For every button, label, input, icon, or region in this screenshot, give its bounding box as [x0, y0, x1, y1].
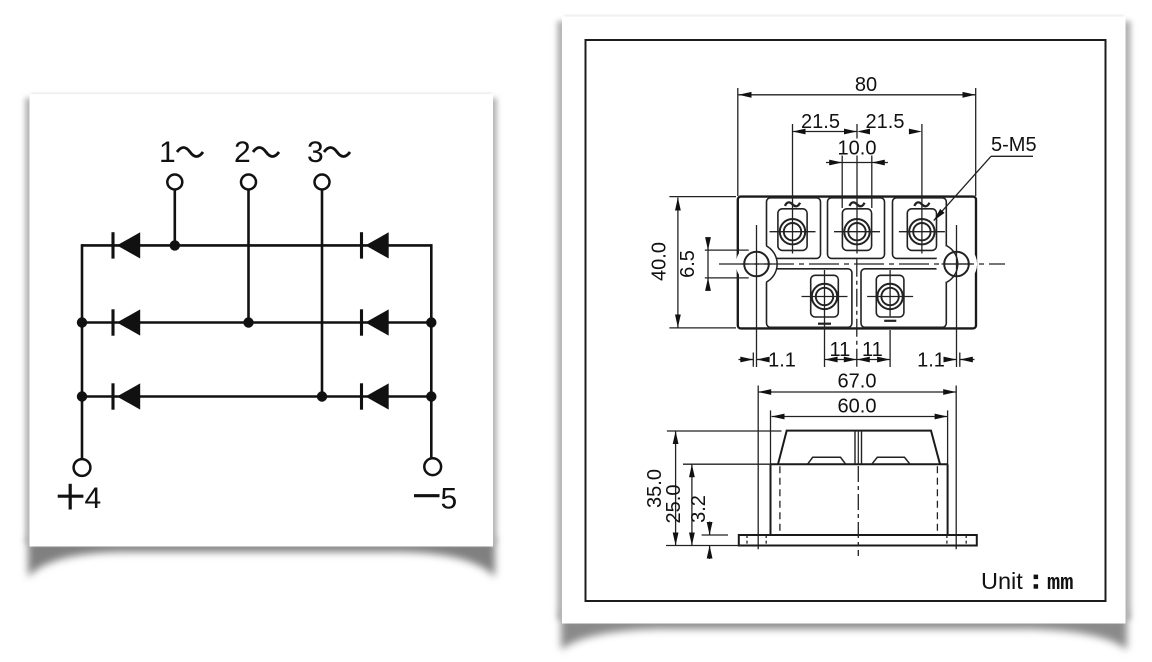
dimension label 1.1 left: [768, 350, 796, 372]
terminal circle 3: [315, 175, 330, 190]
label 5-M5: [991, 134, 1037, 156]
dimension 40.0 line: [675, 198, 681, 328]
DC + terminal pad: [811, 275, 839, 317]
DC + terminal vertical center line: [824, 270, 826, 367]
side view hidden edge left: [779, 466, 781, 535]
svg-text:11: 11: [862, 339, 883, 361]
svg-text:25.0: 25.0: [663, 485, 685, 524]
dimension 10.0 extension lines: [842, 156, 872, 209]
AC terminal 3 crosshair: [899, 231, 945, 233]
label 1~ (phase 1 AC terminal): [159, 136, 203, 169]
right mounting hole vertical center line: [956, 225, 958, 367]
dimension 1.1 right arrows: [944, 357, 975, 363]
AC terminal 3 vertical center line: [921, 124, 923, 254]
dimension label 1.1 right: [917, 350, 945, 372]
AC terminal 1 crosshair: [770, 231, 816, 233]
svg-text:6.5: 6.5: [677, 250, 699, 278]
svg-text:4: 4: [85, 482, 102, 515]
right mounting hole: [944, 252, 969, 277]
wire from terminal 2 down to row 2: [247, 191, 250, 323]
svg-text:10.0: 10.0: [838, 138, 877, 160]
side view body left edge: [770, 410, 772, 535]
left photo card: [30, 94, 494, 547]
left photo card curl shadow: [28, 538, 495, 577]
svg-text:3.2: 3.2: [688, 495, 710, 523]
svg-text:60.0: 60.0: [838, 396, 877, 418]
dimension 3.2 arrows: [707, 522, 713, 560]
label -5 (minus sign): [414, 494, 440, 497]
wire row 1 horizontal: [82, 244, 431, 247]
svg-text:67.0: 67.0: [838, 371, 877, 393]
left mounting hole notch arc: [736, 243, 777, 284]
dimension 35.0 line: [673, 431, 679, 546]
node junction right rail/row3: [426, 391, 436, 401]
right drawing card curl shadow: [561, 610, 1127, 650]
wire left bus rail: [81, 244, 84, 459]
node junction terminal2/row2: [243, 317, 253, 327]
dimension label 60.0: [838, 396, 877, 418]
DC + terminal screw: [812, 284, 837, 309]
drawing border frame: [586, 40, 1106, 601]
dimension 25.0 line: [689, 464, 695, 545]
right drawing card: [562, 17, 1126, 624]
node junction left rail/row2: [77, 317, 87, 327]
dimension 6.5 line: [705, 237, 711, 291]
dimension 67.0 extension lines: [758, 386, 956, 550]
right drawing card edge shadow: [557, 21, 1131, 620]
dimension 40.0 extension lines: [669, 197, 736, 328]
top view cell 2 (AC terminal 2 bay): [828, 198, 885, 259]
dimension 80 line: [739, 92, 976, 98]
label 2~ (phase 2 AC terminal): [234, 136, 279, 169]
top view cell 4 (DC + bay): [767, 269, 852, 328]
dimension 80 extension lines: [738, 88, 976, 196]
dimension 10.0 line: [826, 160, 888, 166]
top view cell 5 (DC - bay): [861, 269, 946, 328]
right mounting hole notch arc: [936, 243, 977, 284]
DC - terminal screw: [877, 284, 902, 309]
svg-text:3: 3: [307, 136, 324, 169]
wire from terminal 1 down to row 1: [174, 191, 177, 246]
wire row 2 horizontal: [82, 321, 431, 324]
diode D3 (row 2 left): [113, 309, 140, 335]
dimension label 3.2: [688, 495, 710, 523]
node junction right rail/row2: [426, 317, 436, 327]
dimension label 10.0: [838, 138, 877, 160]
label 3~ (phase 3 AC terminal): [307, 136, 350, 169]
side view terminal bump right: [872, 457, 910, 464]
top view vertical center line: [856, 259, 858, 367]
svg-text:1.1: 1.1: [768, 350, 796, 372]
AC terminal 3 pad: [907, 209, 936, 251]
svg-text:1.1: 1.1: [917, 350, 945, 372]
side view hidden edge right: [936, 466, 938, 535]
side view lid trapezoid: [778, 431, 940, 465]
left mounting hole vertical center line: [756, 225, 758, 367]
leader line 5-M5: [934, 156, 1033, 220]
side view lid center split lines: [855, 431, 862, 465]
dimension label 21.5 left: [801, 111, 840, 133]
AC terminal 2 pad: [842, 209, 871, 251]
unit label: [981, 568, 1073, 596]
svg-text:5: 5: [441, 483, 458, 516]
side view terminal bump left: [808, 457, 846, 464]
svg-text:5-M5: 5-M5: [991, 134, 1037, 156]
top view cell 1 (AC terminal 1 bay): [767, 198, 821, 259]
top view horizontal center line: [719, 263, 1005, 265]
terminal circle 1: [167, 175, 182, 190]
diode D5 (row 3 left): [113, 383, 140, 409]
dimension label 40.0: [649, 242, 671, 281]
wire right bus rail: [430, 244, 433, 459]
dimension label 11 right: [862, 339, 883, 361]
AC terminal 2 tilde mark: [850, 202, 865, 206]
dimension 60.0 line: [772, 414, 948, 420]
side view body top line: [771, 463, 948, 465]
svg-text:11: 11: [830, 339, 851, 361]
minus polarity mark: [884, 320, 896, 322]
side view flange hole hidden lines left: [747, 535, 766, 546]
AC terminal 3 tilde mark: [914, 202, 929, 206]
dimension 3.2 extension line: [702, 534, 728, 536]
dimension 1.1 left arrows: [739, 357, 770, 363]
AC terminal 1 screw: [780, 219, 805, 244]
side view flange (baseplate): [739, 535, 977, 546]
AC terminal 2 vertical center line: [856, 124, 858, 254]
node junction terminal3/row3: [317, 391, 327, 401]
dimension 1.1 right tick: [959, 353, 961, 367]
svg-text:40.0: 40.0: [649, 242, 671, 281]
AC terminal 3 screw: [909, 219, 934, 244]
left photo card top edge shade: [31, 93, 492, 96]
DC - terminal vertical center line: [889, 270, 891, 367]
svg-text:21.5: 21.5: [801, 111, 840, 133]
diode D1 (row 1 left): [113, 232, 140, 258]
dimension 11 lines: [825, 357, 891, 363]
terminal circle -5 (DC negative): [424, 458, 441, 475]
dimension label 67.0: [838, 371, 877, 393]
plus polarity mark: [818, 323, 831, 325]
dimension 1.1 left tick: [752, 353, 754, 367]
AC terminal 1 pad: [778, 209, 807, 251]
label 4 digit: [85, 482, 102, 515]
DC + terminal crosshair: [802, 296, 848, 298]
svg-text:mm: mm: [1047, 571, 1073, 596]
left mounting hole: [744, 252, 769, 277]
dimension label 11 left: [830, 339, 851, 361]
side view flange hole hidden lines right: [947, 535, 966, 546]
left photo card edge shadow: [25, 98, 497, 544]
dimension 35.0 extension lines: [666, 431, 782, 546]
label 5 digit: [441, 483, 458, 516]
label +4 (plus sign): [58, 484, 84, 510]
top view module body outline: [738, 197, 976, 329]
diode D4 (row 2 right): [362, 309, 389, 335]
side view body right edge: [947, 410, 949, 535]
wire from terminal 3 down to row 3: [321, 191, 324, 397]
dimension label 35.0: [644, 469, 666, 508]
wire row 3 horizontal: [82, 395, 431, 398]
dimension 21.5 line left: [793, 129, 858, 135]
diode D2 (row 1 right): [362, 232, 389, 258]
dimension 67.0 line: [758, 389, 956, 395]
top view cell 3 (AC terminal 3 bay): [893, 198, 947, 259]
dimension 6.5 extension lines: [705, 250, 749, 278]
svg-text:Unit: Unit: [981, 568, 1023, 594]
node junction terminal1/row1: [170, 240, 180, 250]
terminal circle +4 (DC positive): [74, 459, 91, 476]
dimension 25.0 extension line: [683, 463, 770, 465]
right drawing card top edge shade: [564, 15, 1124, 18]
svg-text:80: 80: [855, 74, 877, 96]
DC - terminal crosshair: [867, 296, 913, 298]
AC terminal 1 tilde mark: [785, 202, 800, 206]
dimension 21.5 line right: [857, 129, 922, 135]
AC terminal 2 crosshair: [834, 231, 880, 233]
svg-text:1: 1: [159, 136, 176, 169]
AC terminal 1 vertical center line: [792, 124, 794, 254]
svg-text:21.5: 21.5: [866, 111, 905, 133]
AC terminal 2 screw: [844, 219, 869, 244]
dimension label 80: [855, 74, 877, 96]
dimension label 21.5 right: [866, 111, 905, 133]
terminal circle 2: [241, 175, 256, 190]
diode D6 (row 3 right): [362, 383, 389, 409]
side view vertical center line: [857, 466, 859, 556]
dimension label 25.0: [663, 485, 685, 524]
svg-text:2: 2: [234, 136, 251, 169]
DC - terminal pad: [876, 275, 904, 317]
node junction left rail/row3: [77, 391, 87, 401]
dimension label 6.5: [677, 250, 699, 278]
